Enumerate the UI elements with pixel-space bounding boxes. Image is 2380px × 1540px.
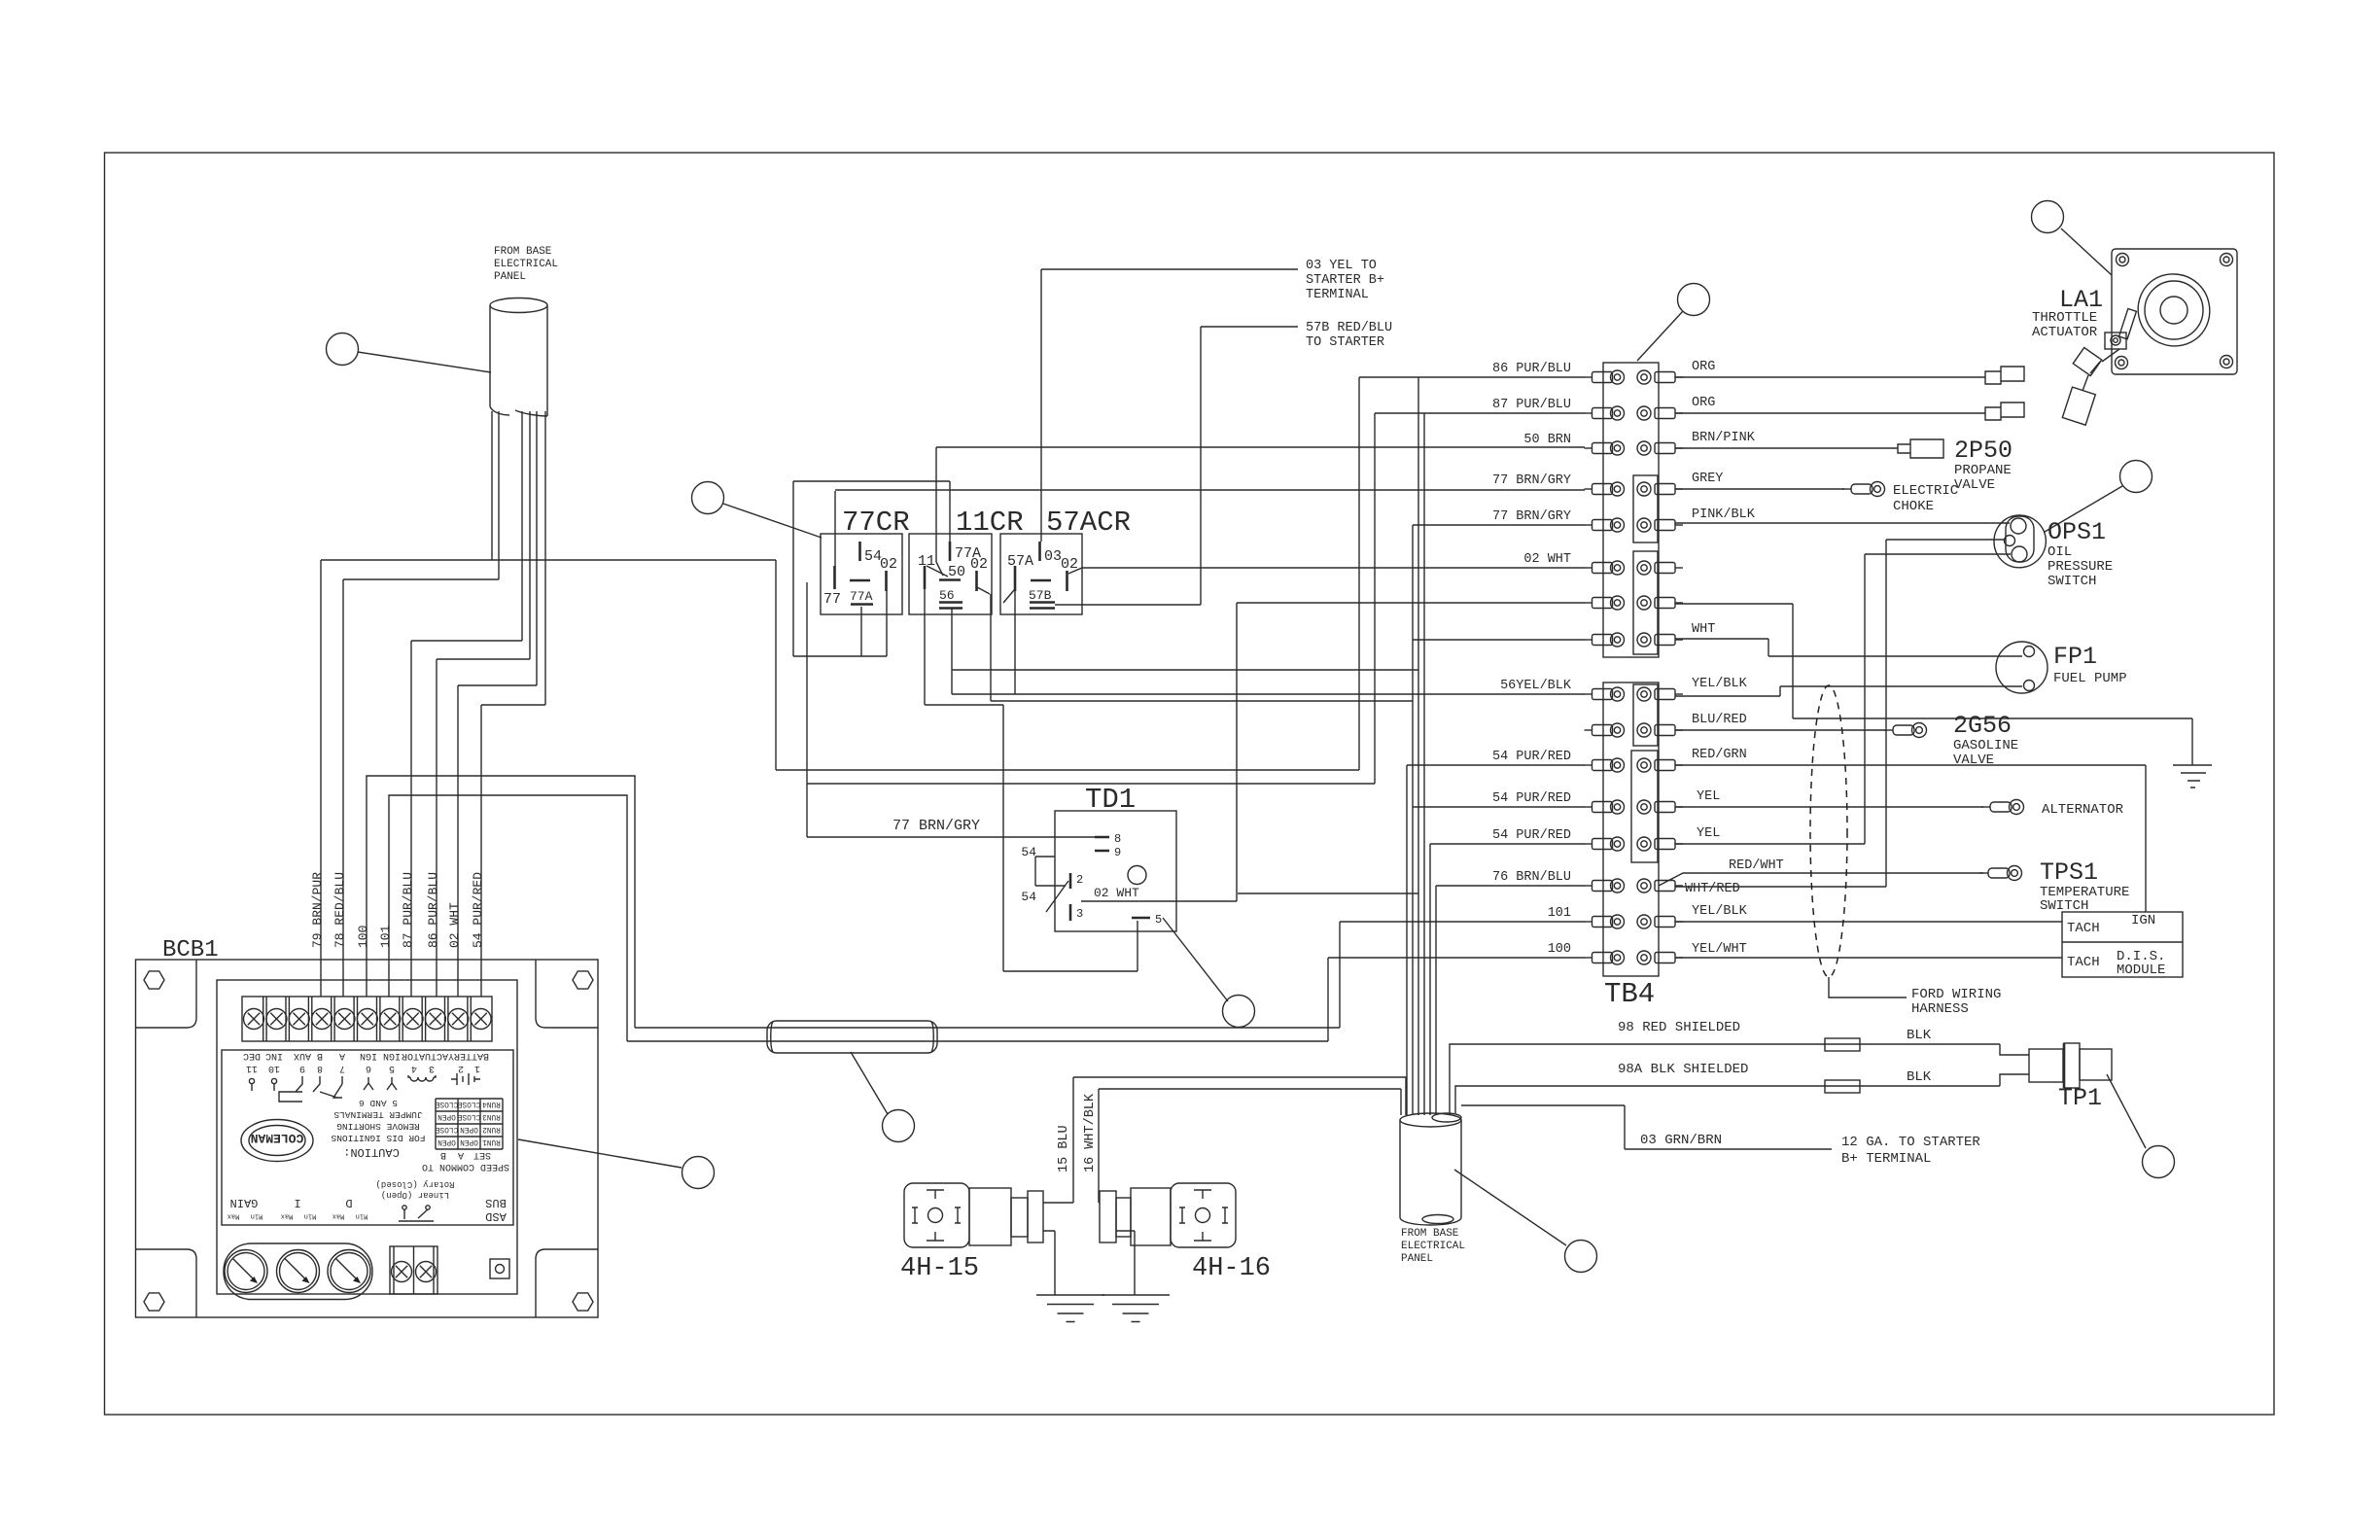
svg-text:50 BRN: 50 BRN	[1523, 433, 1571, 447]
svg-text:TP1: TP1	[2058, 1084, 2102, 1112]
svg-text:57B RED/BLU: 57B RED/BLU	[1306, 321, 1392, 335]
svg-text:HARNESS: HARNESS	[1911, 1001, 1969, 1017]
svg-text:Min: Min	[356, 1212, 368, 1220]
svg-text:Max: Max	[332, 1212, 345, 1220]
svg-text:FROM BASE: FROM BASE	[1401, 1228, 1459, 1240]
svg-text:OPS1: OPS1	[2047, 518, 2106, 546]
svg-text:BATTERY: BATTERY	[448, 1050, 489, 1061]
svg-text:Min: Min	[304, 1212, 317, 1220]
svg-text:77A: 77A	[850, 589, 873, 604]
svg-text:100: 100	[356, 926, 370, 948]
svg-text:54: 54	[1021, 845, 1036, 859]
svg-text:03 YEL TO: 03 YEL TO	[1306, 259, 1377, 273]
svg-text:4: 4	[411, 1063, 417, 1073]
svg-text:54 PUR/RED: 54 PUR/RED	[1492, 750, 1571, 764]
svg-text:RUN4: RUN4	[482, 1100, 501, 1107]
svg-text:INC: INC	[265, 1050, 283, 1061]
svg-text:87 PUR/BLU: 87 PUR/BLU	[1492, 398, 1571, 412]
svg-text:A: A	[339, 1050, 345, 1061]
svg-text:56: 56	[939, 588, 955, 603]
svg-text:98A BLK SHIELDED: 98A BLK SHIELDED	[1618, 1062, 1748, 1077]
svg-text:5 AND 6: 5 AND 6	[359, 1098, 398, 1108]
svg-text:12 GA. TO STARTER: 12 GA. TO STARTER	[1841, 1135, 1980, 1150]
svg-text:GAIN: GAIN	[230, 1196, 259, 1209]
svg-text:CLOSE: CLOSE	[435, 1125, 458, 1133]
svg-text:9: 9	[1114, 846, 1121, 859]
svg-text:IGN: IGN	[2131, 913, 2155, 928]
svg-text:TO STARTER: TO STARTER	[1306, 335, 1384, 350]
svg-text:TACH: TACH	[2067, 955, 2100, 970]
svg-text:AUX: AUX	[294, 1050, 311, 1061]
svg-text:03: 03	[1044, 548, 1062, 565]
svg-text:PANEL: PANEL	[1401, 1253, 1433, 1265]
svg-text:02 WHT: 02 WHT	[447, 902, 462, 948]
svg-text:WHT/RED: WHT/RED	[1685, 882, 1740, 896]
svg-text:ASD: ASD	[485, 1209, 507, 1223]
svg-text:98 RED SHIELDED: 98 RED SHIELDED	[1618, 1020, 1740, 1035]
svg-text:CAUTION:: CAUTION:	[343, 1145, 400, 1159]
svg-text:MODULE: MODULE	[2117, 962, 2165, 978]
svg-text:OPEN: OPEN	[437, 1137, 456, 1145]
svg-text:TPS1: TPS1	[2040, 858, 2098, 887]
svg-text:ELECTRICAL: ELECTRICAL	[494, 259, 558, 270]
svg-text:ELECTRIC: ELECTRIC	[1893, 483, 1958, 499]
svg-text:YEL/BLK: YEL/BLK	[1692, 904, 1748, 919]
svg-text:11: 11	[918, 553, 935, 570]
svg-text:D: D	[345, 1196, 352, 1209]
svg-text:YEL/WHT: YEL/WHT	[1692, 942, 1747, 957]
svg-text:77: 77	[823, 591, 841, 608]
svg-text:BUS: BUS	[485, 1196, 507, 1209]
svg-text:CLOSE: CLOSE	[435, 1100, 458, 1107]
svg-text:02: 02	[970, 556, 988, 573]
svg-text:77 BRN/GRY: 77 BRN/GRY	[1492, 473, 1571, 488]
svg-text:A: A	[458, 1149, 464, 1160]
svg-text:BLK: BLK	[1907, 1028, 1932, 1043]
svg-text:87 PUR/BLU: 87 PUR/BLU	[401, 872, 415, 948]
svg-text:77 BRN/GRY: 77 BRN/GRY	[1492, 509, 1571, 524]
svg-text:3: 3	[1076, 907, 1083, 921]
svg-text:101: 101	[378, 925, 393, 948]
svg-text:IGN: IGN	[360, 1050, 377, 1061]
svg-text:03 GRN/BRN: 03 GRN/BRN	[1640, 1133, 1722, 1148]
svg-text:Max: Max	[281, 1212, 294, 1220]
svg-text:GREY: GREY	[1692, 472, 1723, 486]
svg-text:DEC: DEC	[243, 1050, 261, 1061]
svg-text:PROPANE: PROPANE	[1954, 463, 2012, 478]
svg-text:ORG: ORG	[1692, 360, 1715, 374]
svg-text:02 WHT: 02 WHT	[1523, 552, 1571, 567]
svg-text:10: 10	[268, 1063, 280, 1073]
svg-text:JUMPER TERMINALS: JUMPER TERMINALS	[333, 1109, 423, 1120]
svg-text:B+ TERMINAL: B+ TERMINAL	[1841, 1151, 1931, 1167]
svg-text:02 WHT: 02 WHT	[1094, 886, 1139, 900]
svg-text:56YEL/BLK: 56YEL/BLK	[1500, 679, 1572, 693]
svg-text:TERMINAL: TERMINAL	[1306, 288, 1369, 302]
svg-text:76 BRN/BLU: 76 BRN/BLU	[1492, 870, 1571, 885]
svg-text:STARTER B+: STARTER B+	[1306, 273, 1384, 288]
svg-text:ACTUATOR: ACTUATOR	[402, 1050, 448, 1061]
svg-text:3: 3	[429, 1063, 435, 1073]
svg-text:SET: SET	[473, 1149, 491, 1160]
svg-text:4H-15: 4H-15	[900, 1254, 979, 1283]
svg-text:ORG: ORG	[1692, 396, 1715, 410]
svg-text:2G56: 2G56	[1953, 712, 2012, 740]
svg-text:Linear (Open): Linear (Open)	[381, 1190, 449, 1200]
svg-text:PRESSURE: PRESSURE	[2047, 559, 2113, 575]
svg-text:ACTUATOR: ACTUATOR	[2032, 325, 2098, 340]
svg-text:PANEL: PANEL	[494, 271, 526, 283]
svg-text:BLK: BLK	[1907, 1069, 1932, 1085]
svg-text:7: 7	[339, 1063, 345, 1073]
svg-text:77 BRN/GRY: 77 BRN/GRY	[892, 818, 980, 834]
svg-text:16 WHT/BLK: 16 WHT/BLK	[1083, 1093, 1098, 1172]
svg-text:8: 8	[1114, 832, 1121, 846]
svg-text:FOR DIS IGNITIONS: FOR DIS IGNITIONS	[331, 1133, 425, 1143]
svg-text:ELECTRICAL: ELECTRICAL	[1401, 1241, 1465, 1252]
svg-text:B: B	[440, 1149, 446, 1160]
svg-text:57B: 57B	[1029, 588, 1052, 603]
svg-text:THROTTLE: THROTTLE	[2032, 310, 2097, 326]
svg-text:78 RED/BLU: 78 RED/BLU	[332, 872, 347, 948]
svg-text:54 PUR/RED: 54 PUR/RED	[471, 872, 485, 948]
svg-text:86 PUR/BLU: 86 PUR/BLU	[426, 872, 440, 948]
svg-text:VALVE: VALVE	[1954, 477, 1995, 493]
svg-text:IGN: IGN	[383, 1050, 401, 1061]
svg-text:5: 5	[389, 1063, 395, 1073]
svg-text:02: 02	[880, 556, 897, 573]
svg-text:OPEN: OPEN	[437, 1112, 456, 1120]
svg-text:FUEL PUMP: FUEL PUMP	[2053, 671, 2127, 686]
svg-text:CLOSE: CLOSE	[457, 1112, 480, 1120]
svg-text:5: 5	[1155, 913, 1162, 927]
svg-text:RUN1: RUN1	[482, 1137, 501, 1145]
svg-text:GASOLINE: GASOLINE	[1953, 738, 2018, 753]
svg-text:54 PUR/RED: 54 PUR/RED	[1492, 828, 1571, 843]
svg-text:SPEED COMMON TO: SPEED COMMON TO	[422, 1161, 509, 1172]
svg-text:YEL: YEL	[1697, 789, 1720, 804]
svg-text:SWITCH: SWITCH	[2047, 574, 2096, 589]
svg-text:11: 11	[246, 1063, 258, 1073]
svg-text:TB4: TB4	[1604, 978, 1655, 1010]
svg-text:YEL/BLK: YEL/BLK	[1692, 677, 1748, 691]
svg-text:BLU/RED: BLU/RED	[1692, 713, 1747, 727]
svg-text:OPEN: OPEN	[460, 1137, 478, 1145]
svg-text:79 BRN/PUR: 79 BRN/PUR	[310, 872, 325, 948]
svg-text:ALTERNATOR: ALTERNATOR	[2042, 802, 2124, 818]
svg-text:8: 8	[317, 1063, 323, 1073]
svg-text:COLEMAN: COLEMAN	[251, 1131, 304, 1145]
svg-text:FROM BASE: FROM BASE	[494, 246, 552, 258]
svg-text:101: 101	[1548, 906, 1571, 921]
svg-text:PINK/BLK: PINK/BLK	[1692, 507, 1756, 522]
svg-text:2: 2	[1076, 873, 1083, 887]
svg-text:100: 100	[1548, 942, 1571, 957]
svg-text:BRN/PINK: BRN/PINK	[1692, 431, 1756, 445]
svg-text:Max: Max	[227, 1212, 240, 1220]
svg-text:57A: 57A	[1007, 553, 1033, 570]
svg-text:2: 2	[458, 1063, 464, 1073]
svg-text:Rotary (Closed): Rotary (Closed)	[375, 1179, 454, 1189]
svg-text:YEL: YEL	[1697, 826, 1720, 841]
svg-text:REMOVE SHORTING: REMOVE SHORTING	[336, 1121, 420, 1132]
svg-text:OPEN: OPEN	[460, 1125, 478, 1133]
svg-text:CHOKE: CHOKE	[1893, 499, 1934, 514]
svg-text:OIL: OIL	[2047, 544, 2072, 560]
svg-text:15 BLU: 15 BLU	[1057, 1125, 1071, 1172]
svg-text:6: 6	[366, 1063, 371, 1073]
svg-text:VALVE: VALVE	[1953, 752, 1994, 768]
svg-text:WHT: WHT	[1692, 622, 1715, 637]
svg-text:54: 54	[1021, 890, 1036, 904]
svg-text:Min: Min	[251, 1212, 263, 1220]
svg-text:TACH: TACH	[2067, 921, 2100, 936]
svg-text:FP1: FP1	[2053, 643, 2097, 671]
svg-text:RED/WHT: RED/WHT	[1729, 858, 1784, 873]
svg-text:4H-16: 4H-16	[1192, 1254, 1271, 1283]
svg-text:50: 50	[948, 564, 965, 580]
svg-text:54 PUR/RED: 54 PUR/RED	[1492, 791, 1571, 806]
svg-text:2P50: 2P50	[1954, 437, 2012, 465]
svg-text:RUN2: RUN2	[482, 1125, 501, 1133]
svg-text:RUN3: RUN3	[482, 1112, 501, 1120]
svg-text:B: B	[317, 1050, 323, 1061]
svg-text:CLOSE: CLOSE	[457, 1100, 480, 1107]
svg-text:9: 9	[299, 1063, 305, 1073]
svg-text:I: I	[294, 1196, 300, 1209]
svg-text:86 PUR/BLU: 86 PUR/BLU	[1492, 362, 1571, 376]
svg-text:RED/GRN: RED/GRN	[1692, 748, 1747, 762]
svg-text:FORD WIRING: FORD WIRING	[1911, 987, 2001, 1002]
svg-text:1: 1	[474, 1063, 480, 1073]
